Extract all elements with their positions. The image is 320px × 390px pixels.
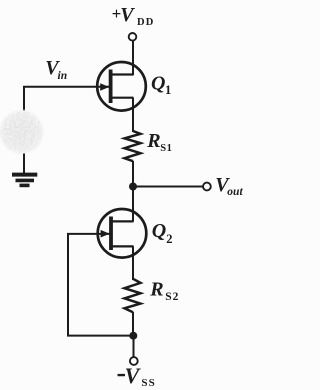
wire node to Q2 drain — [132, 187, 134, 222]
label RS2 — [149, 278, 179, 302]
terminal +VDD open circle — [129, 33, 137, 41]
svg-text:DD: DD — [137, 17, 155, 28]
terminal Vout open circle — [203, 183, 211, 191]
wire Q2 source to RS2 — [132, 254, 134, 280]
svg-text:S2: S2 — [165, 291, 179, 303]
svg-text:R: R — [149, 278, 163, 300]
svg-text:SS: SS — [141, 377, 155, 389]
label Vout — [215, 174, 243, 198]
label +VDD — [112, 4, 155, 28]
label Q1 — [151, 73, 171, 97]
wire gate Q2 feedback — [68, 234, 130, 336]
svg-text:Q: Q — [152, 220, 166, 242]
svg-text:V: V — [125, 363, 142, 388]
wire RS1 to node — [132, 161, 134, 187]
wire blob to ground — [23, 154, 25, 174]
label Vin — [45, 57, 67, 82]
svg-text:S1: S1 — [160, 143, 172, 154]
wire Q1 source to RS1 — [132, 107, 134, 132]
terminal -VSS open circle — [130, 357, 138, 365]
svg-text:V: V — [120, 4, 135, 26]
svg-text:out: out — [227, 186, 243, 198]
transistor Q2 (JFET symbol) — [98, 209, 147, 258]
wire VDD to Q1 drain — [132, 41, 134, 75]
wire node to Vout — [133, 186, 203, 188]
svg-text:in: in — [58, 70, 68, 82]
svg-text:Q: Q — [151, 73, 165, 95]
label RS1 — [146, 130, 172, 154]
label -VSS — [118, 363, 156, 389]
svg-text:R: R — [146, 130, 160, 152]
label Q2 — [152, 220, 173, 246]
wire node to VSS terminal — [133, 336, 135, 357]
faded source blob — [0, 110, 43, 154]
transistor Q1 (JFET symbol) — [97, 62, 146, 111]
resistor RS2 — [125, 279, 141, 313]
svg-text:1: 1 — [165, 83, 171, 97]
node junction dot — [129, 183, 137, 191]
wire gate Q1 from Vin — [24, 87, 109, 111]
bottom node junction dot — [129, 332, 137, 340]
svg-text:2: 2 — [166, 232, 172, 246]
ground — [12, 175, 37, 186]
resistor RS1 — [125, 131, 141, 161]
wire RS2 to bottom node — [132, 312, 134, 336]
